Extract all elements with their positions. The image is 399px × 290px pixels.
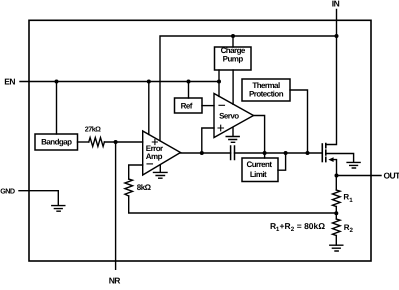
transistor Q1 drain stub with arrow — [333, 160, 337, 176]
wire OUT — [337, 175, 382, 177]
svg-text:Pump: Pump — [223, 55, 244, 64]
svg-text:GND: GND — [0, 186, 15, 195]
wire Q1 body stub to ground — [326, 154, 354, 163]
wire 8k to feedback line — [129, 196, 337, 213]
arrowhead Q1 — [328, 157, 333, 162]
svg-text:+R: +R — [280, 221, 291, 231]
wire servo non-inverting tap — [202, 128, 214, 153]
transistor Q1 channel segments — [325, 144, 327, 162]
label 8k — [137, 183, 152, 192]
svg-text:Current: Current — [246, 160, 272, 169]
outer block boundary — [29, 20, 371, 261]
wire charge pump left pin to servo — [218, 70, 220, 96]
bandgap block — [35, 134, 78, 150]
ground R2 — [330, 245, 343, 251]
wire bandgap output — [78, 141, 89, 143]
wire charge pump right pin to servo — [232, 70, 234, 104]
label R2 — [344, 223, 354, 234]
thermal protection block — [242, 79, 290, 101]
wire OUT node down to R1 — [335, 176, 337, 191]
ground Q1 — [347, 162, 360, 168]
pin OUT label — [384, 171, 399, 181]
wire thermal protection to gate line — [290, 90, 308, 153]
label error amp plus — [152, 139, 157, 144]
ground servo — [226, 128, 239, 143]
label divider sum — [270, 221, 325, 233]
svg-text:IN: IN — [332, 0, 340, 9]
wire EN horizontal — [20, 81, 219, 83]
node EN-erroramp — [147, 80, 151, 84]
node NR tap — [114, 140, 118, 144]
label servo plus — [218, 125, 224, 131]
node current limit right tap — [284, 151, 288, 155]
node feedback divider — [334, 211, 338, 215]
resistor R1 zigzag — [333, 190, 341, 207]
transistor Q1 pass PMOS gate bar — [321, 144, 323, 162]
wire R1 to feedback node — [335, 207, 337, 220]
wire error amp inverting input to 8k — [129, 165, 143, 179]
wire bandgap top pin — [56, 82, 58, 135]
op-amp error amplifier triangle — [143, 131, 181, 175]
svg-text:EN: EN — [4, 76, 15, 86]
svg-text:1: 1 — [349, 197, 353, 204]
label servo minus — [219, 104, 225, 106]
resistor 8k zigzag — [125, 179, 133, 196]
wire ref to servo inverting input — [202, 105, 214, 107]
resistor 27k zigzag — [89, 138, 105, 147]
current limit block — [242, 158, 278, 182]
svg-text:Limit: Limit — [250, 170, 267, 179]
ref block — [175, 98, 203, 113]
svg-text:Ref: Ref — [181, 101, 193, 110]
svg-text:8kΩ: 8kΩ — [137, 183, 152, 192]
label 27k — [85, 125, 101, 134]
wire top rail to charge pump / error amp — [160, 36, 337, 141]
wire 27k to error amp + input — [104, 141, 142, 143]
wire EN to error amp input A — [148, 82, 150, 135]
ground error amp — [154, 165, 168, 178]
node EN-bandgap — [55, 80, 59, 84]
wire IN vertical to pass FET source — [326, 10, 337, 145]
wire ref top pin — [188, 82, 190, 99]
svg-text:2: 2 — [350, 227, 354, 234]
pin GND label — [0, 186, 15, 195]
svg-text:Servo: Servo — [219, 112, 239, 121]
wire current limit top pin — [264, 153, 266, 158]
wire error amp output to capacitor — [181, 152, 231, 154]
svg-text:Amp: Amp — [146, 152, 163, 161]
node EN-ref — [187, 80, 191, 84]
wire R2 to ground — [335, 236, 337, 246]
ground GND pin — [52, 206, 65, 212]
node EN-chargepump — [217, 80, 221, 84]
pin IN label — [332, 0, 340, 9]
svg-text:OUT: OUT — [384, 171, 399, 181]
svg-text:NR: NR — [109, 276, 121, 286]
node servo plus tap — [200, 151, 204, 155]
wire NR vertical — [115, 142, 117, 269]
svg-text:= 80kΩ: = 80kΩ — [294, 221, 325, 231]
wire current limit right tap — [278, 153, 286, 170]
node OUT — [335, 174, 339, 178]
label R1 — [343, 193, 353, 204]
op-amp servo triangle — [214, 94, 254, 138]
pin EN label — [4, 76, 15, 86]
svg-text:27kΩ: 27kΩ — [85, 125, 101, 134]
wire servo output — [254, 116, 265, 154]
node rail-chargepump — [231, 34, 235, 38]
wire GND — [19, 191, 58, 206]
charge pump block — [215, 47, 252, 70]
wire capacitor to gate — [235, 152, 323, 154]
pin NR label — [109, 276, 121, 286]
resistor R2 zigzag — [333, 219, 341, 236]
node IN-rail junction — [335, 34, 339, 38]
svg-text:Protection: Protection — [249, 89, 284, 98]
node thermal tap — [306, 151, 310, 155]
wire charge pump top pin — [232, 36, 234, 47]
capacitor series — [231, 146, 235, 160]
node servo out / current limit — [263, 151, 267, 155]
label error amp minus — [147, 163, 153, 165]
svg-text:Bandgap: Bandgap — [41, 137, 72, 146]
